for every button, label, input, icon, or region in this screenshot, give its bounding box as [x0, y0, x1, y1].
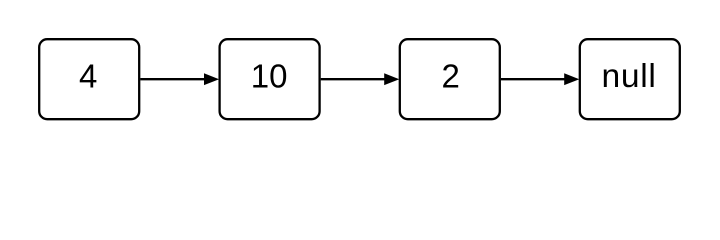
svg-text:null: null [601, 58, 656, 95]
node N3 box [400, 39, 500, 119]
wire: arrow N1 to N2 shaft [140, 78, 205, 80]
arrow N2 to N3 head [384, 73, 399, 85]
arrow N1 to N2 head [204, 73, 219, 85]
arrow N3 to N4 head [564, 73, 579, 85]
svg-text:10: 10 [251, 57, 288, 94]
node N2 box [220, 39, 320, 119]
svg-text:4: 4 [79, 57, 97, 94]
node N4 box [580, 39, 680, 119]
wire: arrow N3 to N4 shaft [501, 78, 566, 80]
svg-text:2: 2 [442, 57, 460, 94]
wire: arrow N2 to N3 shaft [321, 78, 386, 80]
node N1 box [39, 39, 139, 119]
